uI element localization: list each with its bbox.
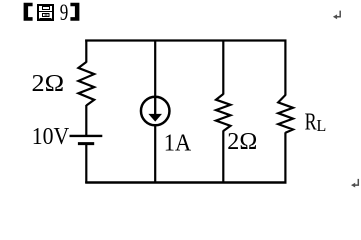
paragraph return mark (bottom right) [354, 179, 358, 185]
wire: current source branch upper [154, 40, 156, 98]
wire: RL branch upper (right edge) [284, 40, 286, 96]
current source 1A arrow (downward) [154, 97, 156, 115]
wire: left branch upper [85, 40, 87, 63]
battery 10V short plate [78, 142, 94, 145]
svg-text:L: L [316, 116, 326, 135]
wire: top rail [85, 39, 286, 41]
resistor 2 ohm (left) zigzag [78, 62, 94, 106]
svg-text:10V: 10V [32, 123, 70, 150]
wire: bottom rail [85, 181, 286, 184]
wire: RL branch lower [284, 132, 286, 183]
wire: left branch between resistor and battery [85, 105, 87, 136]
paragraph return mark (top right) [336, 11, 340, 17]
title left bracket 【 [24, 3, 33, 21]
svg-text:2Ω: 2Ω [32, 70, 65, 97]
resistor 2 ohm (parallel) zigzag [216, 94, 231, 131]
battery 10V long plate [70, 135, 103, 137]
wire: left branch lower [85, 144, 87, 183]
resistor RL zigzag [278, 95, 293, 133]
title right bracket 】 [70, 3, 79, 21]
current source 1A circle [141, 97, 170, 126]
title character 圖 [38, 5, 53, 20]
wire: 2 ohm parallel branch lower [222, 131, 224, 184]
svg-text:2Ω: 2Ω [227, 128, 257, 155]
svg-text:1A: 1A [164, 130, 192, 157]
svg-text:9: 9 [60, 0, 69, 26]
svg-text:R: R [305, 109, 317, 136]
wire: current source branch lower [154, 125, 156, 183]
wire: 2 ohm parallel branch upper [222, 40, 224, 95]
